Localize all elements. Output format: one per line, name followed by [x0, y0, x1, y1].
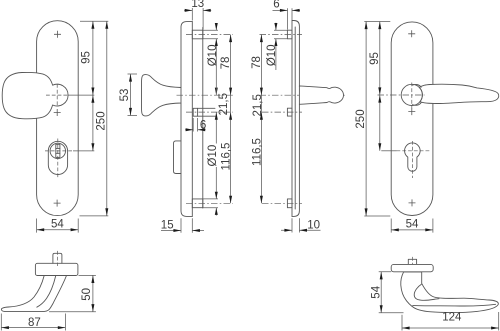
fixing screw cross below rosette: [408, 108, 415, 115]
top stud centerline: [260, 34, 303, 36]
dim line 250: [365, 22, 367, 217]
plate front face with rounded corners, interrupted by knob neck: [181, 22, 192, 217]
keyhole centerline horizontal: [397, 150, 431, 152]
svg-text:21,5: 21,5: [218, 93, 230, 115]
bottom stud edge extension lines: [203, 199, 218, 208]
lever handle side profile: [299, 86, 343, 104]
dim 13 extension lines: [192, 8, 203, 30]
svg-text:Ø10: Ø10: [207, 145, 219, 167]
knob axis centerline vertical: [56, 84, 58, 106]
lever grip inner contour line lower: [413, 304, 496, 306]
svg-text:54: 54: [406, 218, 419, 230]
dim 87 extension lines: [1, 314, 65, 331]
width extension lines 54: [37, 219, 79, 233]
svg-text:116,5: 116,5: [220, 143, 232, 171]
svg-text:124: 124: [442, 311, 462, 323]
dim 6: [185, 129, 205, 131]
dim 10: [281, 229, 321, 231]
rosette circle: [401, 84, 422, 105]
dim line 95: [379, 22, 381, 96]
svg-text:Ø10: Ø10: [207, 45, 219, 67]
sub-plate rear line: [202, 28, 204, 209]
width extension lines 54: [391, 219, 433, 233]
plate front face: [291, 21, 293, 217]
dim 6 extension lines: [288, 8, 293, 29]
dim segment axis to cylinder: [379, 95, 381, 151]
svg-text:87: 87: [28, 317, 41, 329]
svg-text:10: 10: [307, 219, 320, 231]
svg-text:53: 53: [119, 89, 131, 102]
dim segment axis to cylinder: [92, 95, 94, 151]
dim line 54: [37, 229, 79, 231]
svg-text:50: 50: [81, 288, 93, 301]
axis centerline horizontal: [378, 94, 425, 96]
cylinder extension line: [73, 150, 94, 152]
backplate outline: [391, 22, 433, 216]
svg-text:6: 6: [200, 119, 206, 131]
top extension line: [80, 20, 108, 22]
knob axis centerline horizontal: [46, 94, 69, 96]
axis centerline vertical: [411, 83, 413, 109]
bottom screw cross: [409, 199, 416, 206]
dim line dia10: [275, 23, 277, 70]
screw square: [287, 108, 292, 116]
bottom extension line 250: [80, 215, 109, 217]
svg-text:54: 54: [51, 218, 64, 230]
screw centerline: [262, 111, 302, 113]
spindle square: [53, 253, 62, 263]
dim line B: 78 and 116,5: [230, 35, 232, 204]
svg-text:116,5: 116,5: [252, 138, 264, 166]
cylinder profile slot: [56, 144, 60, 157]
dim 50 extension lines: [49, 275, 96, 311]
slot tick lines: [56, 149, 60, 154]
dim 6 extension lines: [193, 118, 197, 132]
dim 10 extension lines: [292, 218, 299, 232]
spindle square: [408, 259, 416, 264]
svg-text:95: 95: [369, 52, 381, 65]
bottom stud centerline: [186, 202, 233, 204]
cylinder centerline horizontal: [45, 150, 73, 152]
dim line 54: [391, 229, 433, 231]
keyhole cutout: [405, 143, 421, 171]
top screw cross: [408, 30, 415, 37]
dim 53 extension ticks: [128, 74, 138, 116]
svg-text:78: 78: [251, 56, 263, 69]
cylinder guard bump on front face: [174, 141, 182, 174]
knob head: [2, 72, 68, 118]
top stud: [192, 30, 203, 39]
svg-text:21,5: 21,5: [252, 94, 264, 116]
bottom stud centerline: [262, 202, 302, 204]
lever grip: [419, 84, 498, 103]
neck bump bottom: [413, 103, 422, 106]
dim line 78 / 21,5 / 116,5: [260, 35, 262, 204]
fixing screw shaft: [198, 108, 215, 116]
top stud edge extension lines: [274, 30, 287, 39]
bottom stud square: [287, 199, 292, 208]
svg-text:Ø10: Ø10: [266, 44, 278, 66]
bottom extension line 250: [364, 215, 390, 217]
bottom stud: [192, 199, 203, 208]
lever grip top view outline: [401, 272, 499, 313]
plate middle line: [294, 27, 296, 209]
neck bump top: [413, 84, 422, 87]
svg-text:78: 78: [220, 57, 232, 70]
top stud edge extension lines: [203, 30, 218, 39]
knob axis extension line: [68, 94, 94, 96]
cylinder oval: [48, 141, 67, 174]
dim 50: [92, 275, 94, 311]
svg-text:15: 15: [161, 220, 174, 232]
fixing screw head: [193, 108, 197, 116]
keyhole centerline vertical: [411, 141, 413, 178]
svg-text:54: 54: [371, 285, 383, 298]
dim 15: [161, 230, 204, 232]
fixing screw cross below knob: [54, 109, 61, 116]
knob side profile: [142, 75, 182, 116]
dim 124: [402, 327, 499, 329]
dim 15 extension lines: [181, 218, 192, 232]
knob cap: [35, 263, 78, 275]
neck middle contour: [37, 276, 56, 308]
dim 53: [130, 74, 132, 116]
spindle centerline: [56, 251, 58, 266]
dim 124 extension lines: [402, 312, 499, 331]
top stud centerline: [186, 34, 233, 36]
dim line 250: [106, 21, 108, 216]
dim 87: [1, 327, 65, 329]
top extension line: [364, 21, 390, 23]
knob axis centerline: [177, 94, 233, 96]
bottom screw cross: [54, 200, 61, 207]
svg-text:95: 95: [80, 51, 92, 64]
svg-text:250: 250: [355, 109, 367, 128]
dim line 95: [92, 21, 94, 95]
dim line A: top stud dia + 21,5 + bottom stud dia: [215, 23, 217, 216]
neck outer contour and foot: [1, 276, 66, 312]
spindle centerline: [411, 257, 413, 277]
backplate outline: [37, 21, 79, 216]
plate back face with rounded corners, interrupted by lever neck: [292, 21, 299, 217]
svg-text:13: 13: [191, 0, 204, 10]
lever axis centerline: [260, 94, 347, 96]
top screw cross: [54, 31, 61, 38]
plate back face: [191, 22, 193, 217]
svg-text:250: 250: [95, 111, 107, 130]
svg-text:6: 6: [273, 0, 279, 10]
dim 54 extension lines: [379, 272, 404, 313]
cylinder core circle: [50, 143, 65, 158]
cylinder centerline vertical: [57, 139, 59, 178]
keyhole extension line: [381, 150, 396, 152]
dim 6: [273, 9, 301, 11]
top stud square: [287, 30, 292, 39]
dim 13: [184, 9, 211, 11]
rosette bar: [391, 264, 433, 271]
lever grip inner contour line upper: [414, 284, 439, 300]
dim 54: [380, 272, 382, 313]
fixing screw centerline: [186, 111, 233, 113]
